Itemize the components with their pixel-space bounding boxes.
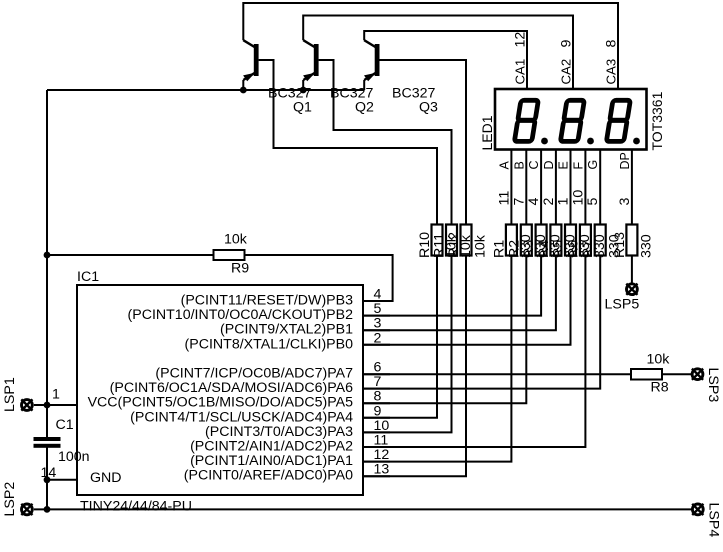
svg-text:1: 1 (52, 387, 60, 403)
resistor R9 10k (214, 232, 250, 277)
wire display segment F to resistor (584, 150, 586, 225)
svg-text:10: 10 (570, 190, 586, 206)
svg-text:R9: R9 (231, 261, 249, 277)
wire IC pin 14 (GND) to rail (47, 479, 77, 481)
svg-text:LSP2: LSP2 (2, 482, 18, 517)
7-segment display LED1 TOT3361 (495, 89, 647, 150)
wire VCC left rail vertical (46, 90, 48, 437)
svg-text:CA2: CA2 (559, 59, 574, 85)
solder pad LSP1 (21, 399, 32, 410)
wire GND bottom rail LSP2 to LSP4 (34, 508, 691, 510)
svg-text:GND: GND (90, 470, 122, 486)
wire IC pin 7 to segment G (363, 256, 600, 389)
junction emitter rail / Q2 emitter (300, 87, 307, 94)
IC pin 10 stub (363, 431, 390, 433)
solder pad LSP2 (21, 504, 32, 515)
svg-text:C1: C1 (56, 417, 74, 433)
svg-text:R6: R6 (565, 240, 581, 258)
IC pin 6 stub (363, 373, 390, 375)
svg-text:8: 8 (604, 40, 620, 48)
svg-text:9: 9 (374, 403, 382, 419)
wire display segment B to resistor (525, 150, 527, 225)
wire display segment E to resistor (570, 150, 572, 225)
svg-text:12: 12 (513, 32, 529, 48)
wire Q1 collector to display CA3 (243, 3, 618, 89)
resistor R1 330 (506, 225, 517, 256)
svg-text:11: 11 (496, 191, 512, 206)
wire Q2 collector to display CA2 (303, 16, 573, 90)
svg-text:4: 4 (374, 287, 382, 303)
wire IC pin 13 to R12 (363, 256, 466, 477)
svg-text:R7: R7 (580, 240, 596, 258)
IC pin 12 stub (363, 461, 390, 463)
svg-text:TINY24/44/84-PU: TINY24/44/84-PU (80, 499, 192, 515)
svg-text:R12: R12 (446, 232, 462, 258)
junction GND rail / pin 14 (44, 476, 51, 483)
svg-text:1: 1 (556, 198, 572, 206)
wire Q2 base to R11 (319, 60, 452, 225)
svg-text:DP: DP (618, 152, 632, 169)
svg-text:Q2: Q2 (355, 100, 374, 116)
svg-text:R13: R13 (612, 232, 628, 258)
wire IC pin 6 to R8 (363, 373, 631, 375)
svg-text:R3: R3 (521, 240, 537, 258)
svg-text:(PCINT9/XTAL2)PB1: (PCINT9/XTAL2)PB1 (220, 322, 353, 338)
solder pad LSP3 (692, 369, 703, 380)
wire Q1 emitter to rail (242, 80, 244, 90)
resistor R10 labels (417, 232, 460, 258)
svg-text:11: 11 (374, 433, 389, 449)
svg-text:(PCINT0/AREF/ADC0)PA0: (PCINT0/AREF/ADC0)PA0 (184, 468, 353, 484)
IC pin 2 stub (363, 344, 390, 346)
wire IC pin 8 to segment B (363, 256, 526, 404)
wire Q2 emitter to rail (302, 80, 304, 90)
wire display segment DP to resistor (631, 150, 633, 225)
IC pin 13 stub (363, 475, 390, 477)
transistor Q2 BC327 PNP (303, 40, 374, 115)
svg-text:LSP1: LSP1 (2, 377, 18, 412)
svg-text:5: 5 (374, 301, 382, 317)
IC pin 8 stub (363, 402, 390, 404)
resistor R3 labels (521, 234, 564, 258)
svg-text:10k: 10k (224, 232, 248, 248)
svg-text:LED1: LED1 (479, 115, 495, 150)
wire R8 to LSP3 (662, 373, 692, 375)
svg-text:R5: R5 (551, 240, 567, 258)
wire display segment G to resistor (599, 150, 601, 225)
wire GND rail below C1 (46, 448, 48, 510)
svg-text:(PCINT6/OC1A/SDA/MOSI/ADC6)PA6: (PCINT6/OC1A/SDA/MOSI/ADC6)PA6 (110, 380, 353, 396)
svg-text:A: A (497, 160, 511, 169)
svg-text:13: 13 (374, 462, 390, 478)
svg-text:3: 3 (374, 316, 382, 332)
resistor R13 330 (626, 225, 637, 256)
capacitor C1 100n (34, 417, 90, 465)
resistor R12 labels (446, 232, 489, 258)
junction GND rail / bottom rail (44, 506, 51, 513)
wire IC pin 11 to segment F (363, 256, 585, 448)
wire Q3 base to R12 (379, 60, 466, 225)
wire R13 to LSP5 (631, 256, 633, 283)
resistor R2 labels (506, 234, 549, 258)
resistor R7 330 (595, 225, 606, 256)
svg-text:(PCINT10/INT0/OC0A/CKOUT)PB2: (PCINT10/INT0/OC0A/CKOUT)PB2 (128, 307, 354, 323)
svg-text:9: 9 (559, 40, 575, 48)
wire IC pin 9 to R10 (363, 256, 437, 418)
svg-text:R2: R2 (506, 240, 522, 258)
svg-text:IC1: IC1 (77, 269, 99, 285)
svg-text:8: 8 (374, 389, 382, 405)
svg-text:R1: R1 (491, 240, 507, 258)
svg-text:TOT3361: TOT3361 (649, 91, 665, 150)
resistor R1 labels (491, 234, 534, 258)
svg-text:330: 330 (638, 234, 654, 258)
svg-text:(PCINT1/AIN0/ADC1)PA1: (PCINT1/AIN0/ADC1)PA1 (190, 453, 353, 469)
resistor R6 330 (580, 225, 591, 256)
wire Q3 emitter to rail (363, 80, 365, 90)
resistor R7 labels (580, 234, 623, 258)
wire VCC rail to R9 (47, 254, 214, 256)
svg-text:10k: 10k (647, 352, 671, 368)
resistor R13 labels (612, 232, 655, 258)
svg-text:7: 7 (511, 198, 527, 206)
svg-text:LSP3: LSP3 (705, 368, 721, 403)
wire Q1 base to R10 (259, 60, 437, 225)
svg-text:G: G (586, 160, 600, 170)
svg-text:(PCINT4/T1/SCL/USCK/ADC4)PA4: (PCINT4/T1/SCL/USCK/ADC4)PA4 (130, 409, 353, 425)
transistor Q1 BC327 PNP (243, 40, 312, 115)
svg-text:B: B (512, 161, 526, 169)
svg-text:Q3: Q3 (419, 100, 438, 116)
svg-text:100n: 100n (58, 449, 90, 465)
resistor R6 labels (565, 234, 608, 258)
svg-text:CA1: CA1 (513, 59, 528, 85)
svg-text:LSP4: LSP4 (706, 503, 722, 538)
svg-text:3: 3 (617, 198, 633, 206)
svg-text:5: 5 (585, 198, 601, 206)
IC pin 9 stub (363, 417, 390, 419)
junction VCC rail / pin 1 (44, 402, 51, 409)
svg-text:Q1: Q1 (293, 100, 312, 116)
resistor R8 10k (631, 352, 670, 396)
svg-text:F: F (571, 162, 585, 170)
svg-text:2: 2 (374, 330, 382, 346)
wire R9 to IC pin 4 (245, 255, 393, 301)
resistor R4 330 (550, 225, 561, 256)
svg-text:10: 10 (374, 418, 390, 434)
svg-text:(PCINT3/T0/ADC3)PA3: (PCINT3/T0/ADC3)PA3 (205, 424, 353, 440)
svg-text:E: E (557, 161, 571, 169)
svg-text:14: 14 (41, 465, 57, 481)
IC pin 5 stub (363, 315, 390, 317)
svg-text:(PCINT11/RESET/DW)PB3: (PCINT11/RESET/DW)PB3 (181, 293, 353, 309)
wire IC pin 10 to R11 (363, 256, 452, 433)
svg-text:R8: R8 (651, 380, 669, 396)
resistor R12 10k (461, 225, 472, 256)
wire LSP1 to IC pin 1 (VCC) (34, 404, 77, 406)
svg-text:D: D (542, 160, 556, 169)
resistor R11 labels (432, 233, 475, 258)
svg-text:CA3: CA3 (604, 59, 619, 85)
wire display segment A to resistor (510, 150, 512, 225)
resistor R4 labels (536, 234, 579, 258)
wire IC pin 2 to segment E (363, 256, 571, 345)
svg-text:(PCINT8/XTAL1/CLKI)PB0: (PCINT8/XTAL1/CLKI)PB0 (185, 336, 354, 352)
resistor R11 10k (446, 225, 457, 256)
resistor R10 10k (432, 225, 443, 256)
resistor R5 330 (565, 225, 576, 256)
wire Q3 collector to display CA1 (364, 31, 527, 89)
wire VCC emitter rail horizontal (47, 89, 364, 91)
resistor R5 labels (551, 234, 594, 258)
svg-text:12: 12 (374, 447, 390, 463)
svg-text:(PCINT2/AIN1/ADC2)PA2: (PCINT2/AIN1/ADC2)PA2 (190, 439, 353, 455)
wire display segment D to resistor (555, 150, 557, 225)
wire IC pin 3 to segment D (363, 256, 556, 331)
transistor Q3 BC327 PNP (364, 40, 438, 115)
wire IC pin 5 to segment C (363, 256, 541, 316)
IC U1 IC1 TINY24/44/84-PU (77, 285, 363, 495)
IC pin 11 stub (363, 446, 390, 448)
junction VCC rail / R9 (44, 252, 51, 259)
solder pad LSP4 (692, 504, 703, 515)
svg-text:4: 4 (526, 198, 542, 206)
IC pin 4 stub (363, 300, 390, 302)
svg-text:10k: 10k (473, 234, 489, 258)
svg-text:VCC(PCINT5/OC1B/MISO/DO/ADC5)P: VCC(PCINT5/OC1B/MISO/DO/ADC5)PA5 (88, 395, 354, 411)
wire IC pin 12 to segment A (363, 256, 511, 462)
svg-text:LSP5: LSP5 (605, 297, 640, 313)
IC pin 3 stub (363, 329, 390, 331)
svg-text:C: C (527, 160, 541, 169)
resistor R2 330 (521, 225, 532, 256)
svg-text:2: 2 (541, 198, 557, 206)
solder pad LSP5 (626, 284, 637, 295)
wire display segment C to resistor (540, 150, 542, 225)
IC pin 7 stub (363, 388, 390, 390)
svg-text:R4: R4 (536, 240, 552, 258)
junction emitter rail / Q1 emitter (240, 87, 247, 94)
resistor R3 330 (536, 225, 547, 256)
svg-text:7: 7 (374, 374, 382, 390)
